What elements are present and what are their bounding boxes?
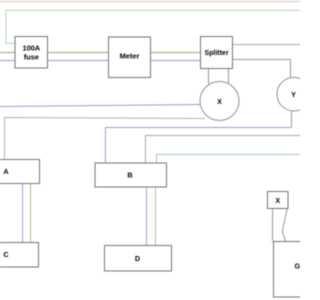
box D xyxy=(105,246,172,272)
wire: grey circle X to box A xyxy=(5,118,206,161)
fuse box 100A xyxy=(15,37,48,69)
wire: blue line left edge to circle X xyxy=(0,105,201,107)
wire: green right edge to box B xyxy=(157,155,301,165)
box B xyxy=(95,163,167,187)
wire: blue meter to splitter xyxy=(150,60,201,62)
wire: blue circle Y to box B xyxy=(106,128,292,165)
wire: circle Y bottom stub xyxy=(291,111,293,128)
svg-text:B: B xyxy=(127,171,132,180)
svg-text:Meter: Meter xyxy=(120,52,140,61)
box C xyxy=(0,243,39,268)
svg-text:A: A xyxy=(3,167,8,176)
svg-text:fuse: fuse xyxy=(24,53,39,62)
box A xyxy=(0,160,40,184)
wire: green earth line top, corner down to fuse xyxy=(6,10,300,43)
circle Y (meter Y) xyxy=(277,77,311,111)
wire: olive box A to box C xyxy=(30,183,32,243)
svg-text:X: X xyxy=(275,196,280,205)
box G (clipped at right edge) xyxy=(274,242,320,298)
svg-text:D: D xyxy=(135,254,140,263)
wire: blue fuse to meter xyxy=(47,60,109,62)
svg-text:X: X xyxy=(217,97,222,106)
svg-text:G: G xyxy=(295,262,300,271)
wire: olive meter to splitter xyxy=(150,52,201,54)
svg-text:C: C xyxy=(3,250,8,259)
wire: grey right edge to box B xyxy=(146,136,301,165)
wire: box X to box G left xyxy=(272,209,274,242)
svg-text:Y: Y xyxy=(291,90,296,99)
splitter box xyxy=(201,37,233,69)
wire: olive box B to box D xyxy=(155,187,157,247)
wire: olive feed left of fuse xyxy=(0,52,16,54)
meter box xyxy=(109,37,151,78)
wire: tan line splitter to right edge xyxy=(233,44,301,46)
wire: splitter bottom right to circle X xyxy=(228,69,230,84)
wire: blue box A to box C xyxy=(22,183,24,243)
wire: blue feed left of fuse xyxy=(0,60,16,62)
circle X (meter X) xyxy=(200,82,239,121)
wire: grey splitter to circle Y xyxy=(233,60,291,79)
wire: blue box B to box D xyxy=(146,187,148,247)
box X small xyxy=(268,192,289,209)
svg-text:100A: 100A xyxy=(22,44,40,53)
wire: red mains line top xyxy=(0,1,300,3)
wire: olive fuse to meter xyxy=(47,52,109,54)
svg-text:Splitter: Splitter xyxy=(204,50,228,57)
wire: splitter bottom left to circle X xyxy=(208,69,210,84)
wire: box X to box G slanted xyxy=(282,209,287,242)
